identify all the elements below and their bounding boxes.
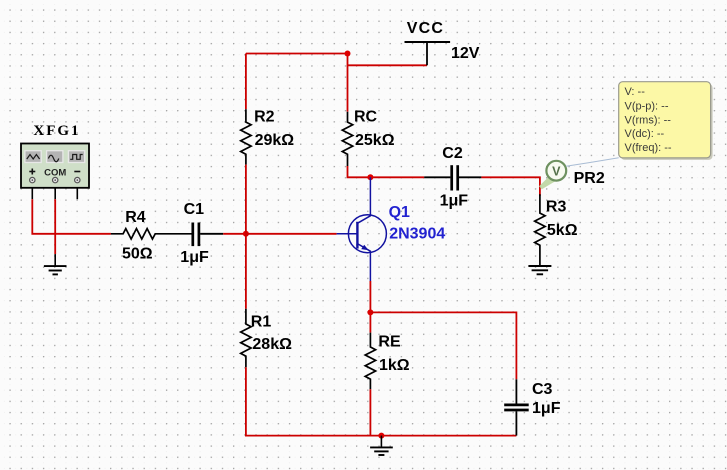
node junction dot emitter [367, 309, 373, 315]
svg-text:2N3904: 2N3904 [389, 225, 445, 242]
wire: emitter junction to C3 column [370, 312, 516, 379]
resistor RC [342, 112, 352, 166]
svg-text:RC: RC [354, 108, 378, 125]
wire: C1 to base junction [223, 233, 246, 235]
wire: R2 bottom through junction to R1 top [245, 165, 247, 309]
ground below XFG1 [44, 254, 67, 274]
wire: probe link line to info box [566, 158, 619, 167]
pin stub XFG1 minus [76, 188, 78, 199]
svg-text:VCC: VCC [407, 20, 444, 37]
node junction dot base [243, 231, 249, 237]
svg-text:COM: COM [44, 167, 66, 178]
svg-text:V(dc): --: V(dc): -- [625, 128, 665, 140]
svg-text:12V: 12V [451, 45, 480, 62]
wire: vertical junction to RC top [347, 53, 349, 112]
svg-text:XFG1: XFG1 [33, 123, 80, 139]
resistor R3 [535, 194, 545, 265]
wire: XFG1 plus to R4 [32, 199, 111, 234]
pin stub XFG1 plus [31, 188, 33, 199]
probe PR2 [539, 161, 566, 190]
svg-text:V(freq): --: V(freq): -- [625, 142, 672, 154]
wire: emitter column to RE and junction [369, 281, 371, 333]
resistor R4 [111, 229, 192, 239]
ground below R3 [528, 266, 551, 274]
wire: XFG1 com down [54, 199, 56, 254]
transistor Q1 [337, 177, 387, 281]
svg-text:C3: C3 [532, 381, 553, 398]
wire: R2 top lead column [245, 54, 247, 110]
svg-text:1μF: 1μF [532, 400, 561, 417]
svg-text:V(rms): --: V(rms): -- [625, 115, 672, 127]
VCC power symbol [405, 42, 451, 65]
svg-text:V: V [552, 165, 561, 179]
wire: RE bottom to ground rail [369, 389, 371, 435]
wire: base junction to transistor [246, 233, 337, 235]
function generator XFG1 [21, 144, 89, 188]
wire: RC bottom to collector row [348, 166, 425, 177]
node junction dot ground rail [378, 433, 384, 439]
pin stub XFG1 com [54, 188, 56, 199]
node junction dot top [345, 51, 351, 57]
svg-text:V(p-p): --: V(p-p): -- [625, 101, 669, 113]
svg-text:PR2: PR2 [574, 170, 605, 187]
wire: top horizontal from R2 to junction [246, 53, 348, 55]
svg-text:1kΩ: 1kΩ [379, 357, 410, 374]
svg-text:R2: R2 [254, 109, 275, 126]
svg-text:5kΩ: 5kΩ [547, 222, 578, 239]
svg-text:V: --: V: -- [625, 86, 646, 98]
svg-text:R1: R1 [251, 314, 272, 331]
svg-text:R4: R4 [125, 209, 146, 226]
svg-text:RE: RE [378, 333, 401, 350]
capacitor C2 [424, 165, 481, 190]
svg-text:29kΩ: 29kΩ [255, 132, 295, 149]
wire: R1 bottom to ground rail corner [246, 367, 517, 435]
wire: C2 to output corner [481, 177, 540, 195]
svg-text:1μF: 1μF [180, 249, 209, 266]
resistor R2 [241, 109, 251, 164]
resistor R1 [241, 309, 251, 367]
svg-text:C2: C2 [442, 145, 463, 162]
node junction dot collector [367, 174, 373, 180]
svg-text:50Ω: 50Ω [122, 246, 153, 263]
capacitor C3 [504, 379, 529, 435]
ground bottom center [370, 436, 393, 455]
svg-text:Q1: Q1 [389, 204, 410, 221]
svg-text:R3: R3 [546, 199, 567, 216]
resistor RE [365, 333, 375, 390]
svg-text:C1: C1 [184, 201, 205, 218]
svg-text:1μF: 1μF [440, 193, 469, 210]
svg-text:25kΩ: 25kΩ [355, 132, 395, 149]
probe info box [619, 82, 713, 160]
svg-text:28kΩ: 28kΩ [252, 336, 292, 353]
wire: horizontal to VCC [348, 64, 428, 66]
capacitor C1 [193, 223, 223, 247]
